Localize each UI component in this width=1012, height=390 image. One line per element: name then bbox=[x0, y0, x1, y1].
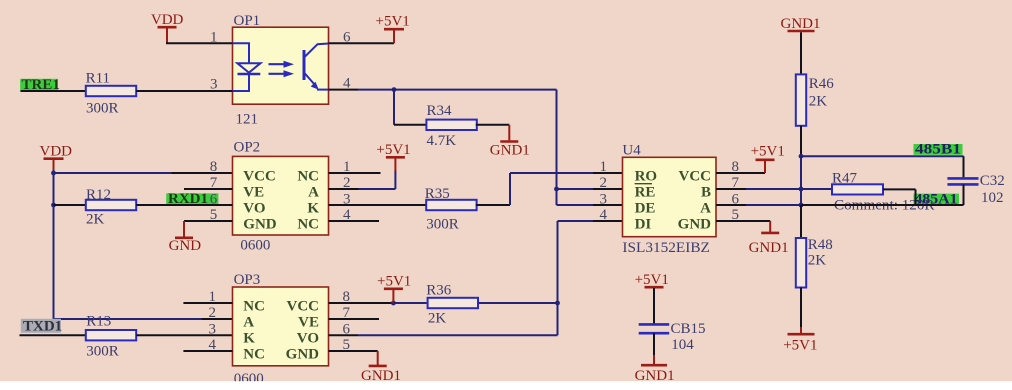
svg-text:RXD1: RXD1 bbox=[168, 191, 208, 207]
U4 pin 6 wire A bbox=[716, 204, 746, 206]
capacitor CB15 bbox=[639, 324, 670, 333]
optocoupler OP2 bbox=[233, 156, 329, 235]
wire R35 to U4 RO bbox=[476, 204, 510, 206]
svg-text:+5V1: +5V1 bbox=[635, 272, 669, 288]
svg-text:+5V1: +5V1 bbox=[376, 142, 410, 158]
net label TXD1 bbox=[21, 319, 62, 335]
wire R13 to OP3 pin 3 bbox=[136, 334, 232, 336]
OP2 pin 2 wire to +5V1 bbox=[329, 188, 359, 190]
svg-text:K: K bbox=[307, 201, 319, 217]
wire U4 DI riser down to OP3 VO bbox=[557, 221, 559, 335]
svg-text:NC: NC bbox=[243, 347, 265, 363]
svg-text:VCC: VCC bbox=[287, 299, 320, 315]
svg-text:VE: VE bbox=[243, 185, 264, 201]
resistor R11 bbox=[86, 86, 136, 96]
U4 pin 8 wire to +5V1 bbox=[716, 172, 765, 174]
svg-text:R47: R47 bbox=[832, 170, 858, 186]
svg-text:B: B bbox=[701, 185, 711, 201]
svg-text:+5V1: +5V1 bbox=[377, 273, 411, 289]
power +5V1 (bottom right) bbox=[783, 327, 817, 353]
wire VDD to OP1 pin 1 bbox=[166, 42, 233, 44]
OP2 pin 4 stub bbox=[329, 220, 380, 222]
capacitor C32 bbox=[947, 178, 978, 184]
wire R48 to +5V1 (bottom) bbox=[800, 288, 802, 328]
OP3 pin 8 wire to +5V1 junction bbox=[329, 302, 394, 304]
junction R36/DI riser bbox=[555, 301, 560, 306]
svg-text:U4: U4 bbox=[622, 142, 641, 158]
svg-text:VCC: VCC bbox=[243, 169, 275, 185]
junction 485B1 bbox=[799, 154, 804, 159]
svg-text:GND: GND bbox=[286, 347, 320, 363]
power +5V1 (OP1) bbox=[376, 14, 410, 44]
svg-text:R13: R13 bbox=[86, 313, 111, 329]
svg-text:VCC: VCC bbox=[679, 169, 712, 185]
wire R36 to DI riser bbox=[479, 302, 558, 304]
wire VDD to OP2 VCC pin 8 bbox=[54, 172, 172, 174]
wire VDD rail down to OP3 pin 2 bbox=[53, 170, 55, 319]
net label TRE1 bbox=[20, 77, 60, 93]
power +5V1 (CB15) bbox=[635, 272, 669, 288]
ground GND1 (CB15) bbox=[635, 355, 675, 384]
OP1 internal phototransistor bbox=[304, 44, 329, 90]
svg-text:A: A bbox=[308, 185, 319, 201]
svg-text:C32: C32 bbox=[980, 173, 1005, 189]
svg-text:GND: GND bbox=[169, 238, 202, 254]
OP3 pin 4 stub bbox=[183, 350, 232, 352]
wire VDD to R12 bbox=[54, 204, 87, 206]
wire down to C32 bbox=[963, 156, 965, 177]
net label 485A1 bbox=[914, 191, 960, 207]
OP3 pin 5 wire to GND1 bbox=[329, 350, 378, 352]
svg-text:300R: 300R bbox=[426, 217, 459, 233]
wire A row to R48 bbox=[800, 205, 802, 238]
svg-text:CB15: CB15 bbox=[671, 321, 706, 337]
wire B row to R47 bbox=[801, 188, 832, 190]
wire R12 to OP2 VO pin 6 bbox=[136, 204, 232, 206]
ground GND1 (R34) bbox=[490, 125, 530, 159]
power +5V1 (U4) bbox=[751, 144, 785, 173]
svg-text:4: 4 bbox=[600, 207, 608, 223]
svg-text:3: 3 bbox=[600, 191, 608, 207]
bottom white strip bbox=[0, 381, 1012, 390]
svg-text:VE: VE bbox=[298, 315, 319, 331]
wire rail B to A bbox=[800, 156, 802, 205]
svg-text:8: 8 bbox=[210, 159, 218, 175]
svg-text:VDD: VDD bbox=[151, 12, 184, 28]
junction at R34 branch bbox=[392, 87, 397, 92]
wire GND1 to R46 bbox=[800, 32, 802, 74]
transceiver U4 bbox=[623, 157, 717, 236]
svg-text:VO: VO bbox=[243, 201, 265, 217]
resistor R47 bbox=[832, 184, 883, 194]
svg-text:R35: R35 bbox=[425, 186, 450, 202]
svg-text:R34: R34 bbox=[427, 103, 453, 119]
wire +5V1 to CB15 bbox=[653, 288, 655, 324]
svg-text:0600: 0600 bbox=[240, 237, 270, 253]
resistor R36 bbox=[428, 298, 478, 308]
ground GND (OP2) bbox=[169, 221, 202, 254]
svg-text:ISL3152EIBZ: ISL3152EIBZ bbox=[622, 240, 710, 256]
wire C32 to A row bbox=[963, 184, 965, 205]
ground GND1 (top) bbox=[781, 16, 821, 32]
wire TRE1 to R11 bbox=[21, 90, 87, 92]
wire to R34 left bbox=[394, 124, 427, 126]
svg-text:GND: GND bbox=[678, 217, 712, 233]
junction +5V1/VCC/R36 bbox=[391, 301, 396, 306]
svg-text:OP1: OP1 bbox=[234, 13, 261, 29]
svg-text:GND1: GND1 bbox=[490, 143, 530, 159]
optocoupler OP1 bbox=[233, 27, 329, 104]
svg-text:RE: RE bbox=[635, 185, 656, 201]
svg-text:A: A bbox=[243, 315, 254, 331]
svg-text:2K: 2K bbox=[808, 253, 827, 269]
OP2 pin 3 wire to R35 bbox=[329, 204, 428, 206]
wire to U4 RE bbox=[557, 188, 594, 190]
svg-text:K: K bbox=[243, 331, 255, 347]
svg-text:102: 102 bbox=[981, 190, 1004, 206]
svg-text:NC: NC bbox=[297, 169, 319, 185]
svg-text:OP3: OP3 bbox=[234, 272, 261, 288]
wire to R36 bbox=[393, 302, 426, 304]
svg-text:VO: VO bbox=[297, 331, 319, 347]
ground GND1 (U4) bbox=[749, 221, 789, 256]
svg-text:+5V1: +5V1 bbox=[751, 144, 785, 160]
junction RE branch bbox=[554, 187, 559, 192]
svg-text:121: 121 bbox=[236, 112, 259, 128]
svg-text:TXD1: TXD1 bbox=[23, 319, 62, 335]
svg-text:GND1: GND1 bbox=[749, 240, 789, 256]
svg-text:+5V1: +5V1 bbox=[783, 337, 817, 353]
svg-text:104: 104 bbox=[671, 337, 694, 353]
svg-text:VDD: VDD bbox=[40, 144, 73, 160]
wire R11 to OP1 pin 3 bbox=[136, 90, 232, 92]
optocoupler OP3 bbox=[233, 287, 329, 366]
svg-text:300R: 300R bbox=[86, 101, 119, 117]
U4 pin 7 wire B bbox=[716, 188, 746, 190]
resistor R35 bbox=[426, 200, 476, 210]
OP3 pin 7 stub bbox=[329, 318, 380, 320]
svg-text:DE: DE bbox=[635, 201, 656, 217]
svg-text:2K: 2K bbox=[86, 212, 105, 228]
resistor R48 bbox=[796, 238, 806, 288]
power +5V1 (OP3) bbox=[377, 273, 411, 303]
wire down to R34 bbox=[393, 90, 395, 125]
wire R34 to GND1 bbox=[476, 124, 510, 126]
svg-text:2: 2 bbox=[600, 175, 608, 191]
svg-text:2: 2 bbox=[209, 305, 217, 321]
svg-text:NC: NC bbox=[297, 217, 319, 233]
wire TXD1 to R13 bbox=[20, 334, 87, 336]
resistor R46 bbox=[796, 74, 806, 125]
svg-text:R12: R12 bbox=[86, 187, 111, 203]
power +5V1 (OP2) bbox=[376, 142, 410, 171]
svg-text:A: A bbox=[700, 201, 711, 217]
svg-text:GND1: GND1 bbox=[781, 16, 821, 32]
wire R47 to A row bbox=[883, 188, 916, 190]
resistor R34 bbox=[426, 120, 476, 130]
svg-text:1: 1 bbox=[600, 159, 608, 175]
wire DI riser to U4 pin 4 bbox=[558, 220, 594, 222]
svg-text:3: 3 bbox=[209, 321, 217, 337]
junction A row bbox=[799, 203, 804, 208]
junction VDD/OP2 VCC bbox=[51, 171, 56, 176]
svg-text:6: 6 bbox=[210, 191, 218, 207]
net label 485B1 bbox=[914, 142, 963, 158]
svg-text:DI: DI bbox=[635, 217, 652, 233]
power VDD (left) bbox=[40, 144, 73, 172]
wire 485B1 row bbox=[801, 155, 964, 157]
OP2 pin 5 wire to GND bbox=[184, 220, 233, 222]
svg-text:2K: 2K bbox=[809, 93, 828, 109]
wire R46 to 485B1 row bbox=[800, 126, 802, 157]
OP2 pin 1 stub bbox=[329, 172, 381, 174]
OP2 pin 7 stub bbox=[184, 188, 233, 190]
junction VDD/R12 bbox=[51, 203, 56, 208]
svg-text:RO: RO bbox=[635, 169, 658, 185]
svg-text:4.7K: 4.7K bbox=[427, 133, 457, 149]
svg-text:OP2: OP2 bbox=[234, 139, 261, 155]
wire to U4 DE bbox=[557, 204, 594, 206]
wire A row right bbox=[801, 204, 964, 206]
svg-text:R46: R46 bbox=[809, 76, 835, 92]
wire OP1 pin 4 right bbox=[329, 89, 359, 91]
OP3 pin 1 stub bbox=[183, 302, 232, 304]
wire OP1 pin 6 to +5V1 bbox=[329, 42, 395, 44]
OP1 light arrows bbox=[269, 61, 295, 78]
svg-text:485B1: 485B1 bbox=[915, 142, 961, 158]
svg-text:R11: R11 bbox=[86, 71, 110, 87]
wire mid vertical (OP1.4 to U4 DE) bbox=[556, 90, 558, 205]
ground GND1 (OP3) bbox=[361, 351, 401, 384]
svg-text:NC: NC bbox=[243, 299, 265, 315]
resistor R12 bbox=[86, 200, 136, 210]
svg-text:R36: R36 bbox=[426, 282, 452, 298]
svg-text:GND: GND bbox=[243, 217, 276, 233]
net label RXD1 bbox=[166, 191, 232, 207]
wire CB15 to GND1 bbox=[653, 333, 655, 356]
svg-text:2K: 2K bbox=[428, 310, 447, 326]
svg-text:+5V1: +5V1 bbox=[376, 14, 410, 30]
junction B row bbox=[799, 187, 804, 192]
svg-text:300R: 300R bbox=[86, 343, 119, 359]
svg-text:R48: R48 bbox=[808, 237, 833, 253]
resistor R13 bbox=[86, 330, 136, 340]
OP1 internal LED diode bbox=[233, 43, 261, 91]
U4 pin 5 wire to GND1 bbox=[716, 220, 770, 222]
power VDD (top) bbox=[151, 12, 184, 43]
